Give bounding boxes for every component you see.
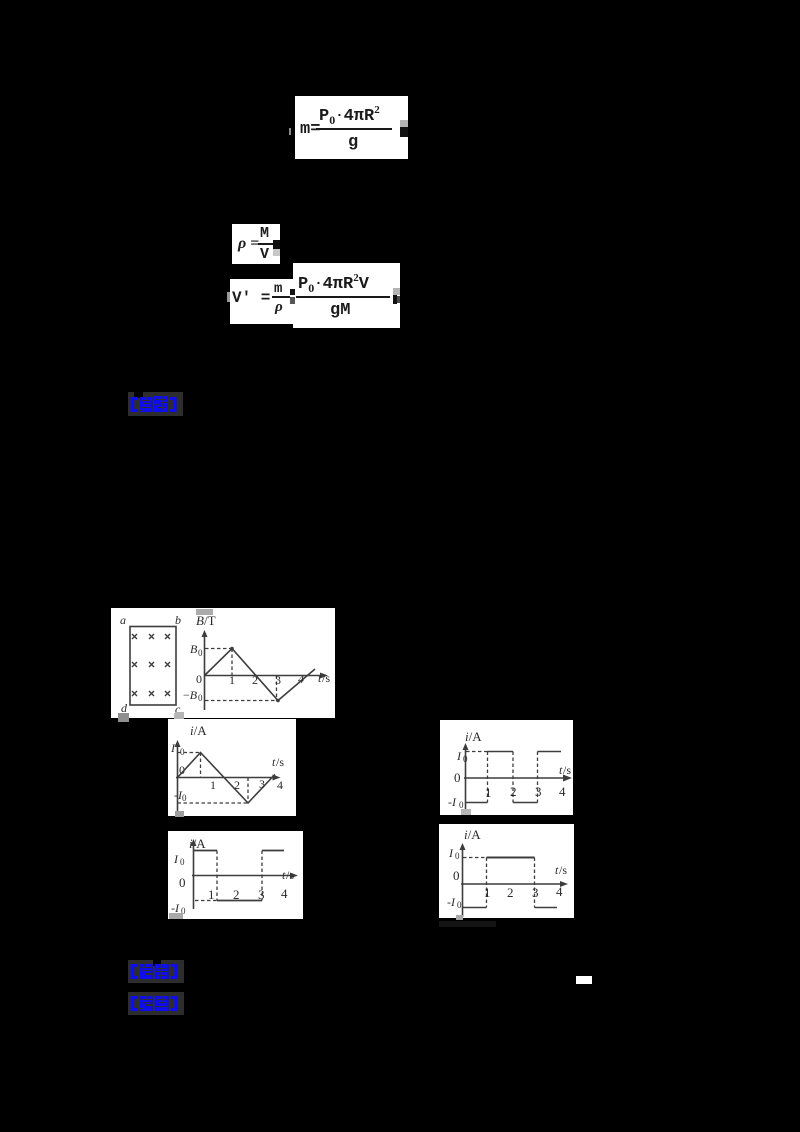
label c bbox=[175, 702, 181, 716]
denominator gM bbox=[330, 302, 350, 319]
label i/A bbox=[464, 827, 481, 842]
dashed vertical at t=1 bbox=[216, 851, 218, 901]
svg-text:i/A: i/A bbox=[465, 729, 482, 744]
numerator M bbox=[260, 226, 269, 241]
svg-text:1: 1 bbox=[208, 887, 215, 902]
dashed vertical at t=3 bbox=[534, 858, 536, 908]
dashed vertical at t=1 bbox=[231, 649, 233, 676]
y-axis bbox=[204, 635, 206, 710]
white dash mark bbox=[576, 976, 592, 984]
svg-text:B: B bbox=[190, 642, 198, 656]
fraction bar bbox=[316, 128, 392, 130]
dashed vertical at trough bbox=[247, 778, 249, 804]
square wave: high 0-1 bbox=[194, 850, 218, 852]
right bracket bbox=[171, 996, 178, 1011]
y-axis bbox=[462, 846, 464, 917]
svg-text:4: 4 bbox=[281, 886, 288, 901]
svg-text:b: b bbox=[175, 613, 181, 627]
dark band under option D box bbox=[439, 921, 496, 927]
dashed -I0 horizontal bbox=[178, 802, 249, 804]
square wave: high 1-3 bbox=[487, 857, 535, 859]
blue label 2: kaodian tag bbox=[128, 960, 184, 983]
tick labels 1 2 3 4 bbox=[229, 673, 235, 687]
option B graph box: square wave period 2 bbox=[440, 720, 573, 815]
svg-text:2: 2 bbox=[507, 885, 514, 900]
svg-text:0: 0 bbox=[196, 672, 202, 686]
svg-text:2: 2 bbox=[252, 673, 258, 687]
left bracket bbox=[131, 964, 138, 979]
square wave: low 2-3 bbox=[513, 802, 538, 804]
svg-text:0: 0 bbox=[182, 793, 187, 803]
gray handle bottom-left of diagram box bbox=[118, 713, 129, 722]
gray handle bottom-left of option A box bbox=[175, 811, 184, 817]
label rho= bbox=[238, 236, 259, 252]
fraction bar bbox=[258, 243, 274, 245]
svg-text:3: 3 bbox=[259, 777, 265, 791]
dark equals mark between box3a and box3b bbox=[290, 289, 295, 295]
svg-text:2: 2 bbox=[510, 784, 517, 799]
svg-text:0: 0 bbox=[455, 851, 460, 861]
dashed B0 horizontal bbox=[205, 648, 232, 650]
svg-text:/s: /s bbox=[286, 868, 294, 882]
gray handle top bbox=[196, 609, 213, 615]
cursor mark bbox=[273, 240, 280, 249]
label I0 overlapping axis bbox=[170, 741, 185, 757]
label B/T bbox=[196, 613, 216, 628]
cursor mark right edge bbox=[400, 120, 408, 127]
square wave: low 1-3 bbox=[217, 900, 262, 902]
gray handle bottom-c of diagram box bbox=[174, 713, 184, 721]
svg-text:0: 0 bbox=[454, 770, 461, 785]
label -I0 bbox=[171, 901, 186, 916]
glyph 2 bbox=[154, 396, 168, 412]
dashed vertical at t=1 bbox=[486, 858, 488, 908]
label 0 bbox=[453, 868, 460, 883]
label a bbox=[120, 613, 126, 627]
numerator bbox=[298, 273, 369, 294]
square wave: high 1-2 bbox=[488, 751, 514, 753]
label i/A bbox=[465, 729, 482, 744]
gray handle bottom-left of option D box bbox=[456, 915, 463, 920]
label -I0 bbox=[174, 788, 187, 803]
label I0 bbox=[448, 846, 460, 861]
tick labels bbox=[484, 885, 491, 900]
formula image 1: m = P0·4πR²/g bbox=[289, 128, 291, 135]
triangle waveform bbox=[178, 753, 276, 804]
svg-text:I: I bbox=[170, 741, 176, 755]
square wave: low 3-4 bbox=[535, 907, 558, 909]
svg-text:1: 1 bbox=[210, 778, 216, 792]
fraction bar bbox=[272, 296, 290, 298]
svg-text:i/A: i/A bbox=[464, 827, 481, 842]
label -I0 bbox=[447, 895, 462, 910]
formula image 2: rho = M/V bbox=[232, 224, 280, 264]
denominator V bbox=[260, 247, 269, 262]
glyph 2 bbox=[155, 964, 169, 979]
glyph 2 bbox=[155, 996, 169, 1011]
label d bbox=[121, 701, 128, 715]
dashed I0 horizontal bbox=[178, 752, 201, 754]
left bracket bbox=[131, 996, 138, 1011]
x-axis bbox=[192, 875, 295, 877]
svg-text:/s: /s bbox=[563, 763, 571, 777]
label t/s bbox=[272, 755, 284, 769]
tick labels bbox=[485, 785, 492, 800]
triangle waveform bbox=[205, 649, 316, 701]
svg-text:2: 2 bbox=[233, 887, 240, 902]
svg-text:/s: /s bbox=[559, 863, 567, 877]
gray handle bottom-left of option B box bbox=[461, 809, 471, 815]
svg-text:2: 2 bbox=[234, 778, 240, 792]
label i/A bbox=[190, 723, 207, 738]
option A graph box: triangle i/A wave bbox=[168, 719, 296, 816]
label i/A bbox=[189, 836, 206, 851]
left bracket bbox=[131, 397, 138, 412]
label m= bbox=[300, 121, 320, 138]
dashed vertical at t=3 bbox=[537, 752, 539, 803]
svg-text:3: 3 bbox=[535, 784, 542, 799]
glyph 1 bbox=[140, 964, 153, 979]
option D graph box: square wave low 0-1, high 1-3, low 3-4 bbox=[439, 824, 574, 918]
label 0 bbox=[196, 672, 202, 686]
svg-text:I: I bbox=[448, 846, 454, 860]
dashed -I0 horizontal bbox=[195, 900, 217, 902]
svg-text:0: 0 bbox=[198, 693, 203, 703]
svg-text:I: I bbox=[456, 749, 462, 763]
label t/s bbox=[555, 863, 567, 877]
svg-text:-I: -I bbox=[447, 895, 456, 909]
label -I0 bbox=[448, 795, 464, 810]
dot at trough bbox=[276, 699, 280, 703]
svg-text:3: 3 bbox=[275, 673, 281, 687]
label b bbox=[175, 613, 181, 627]
svg-text:/s: /s bbox=[276, 755, 284, 769]
diagram box: loop abcd in field + B/T graph bbox=[111, 608, 335, 718]
dashed vertical at t=1 bbox=[487, 752, 489, 803]
label B0 bbox=[190, 642, 203, 658]
dashed I0 horizontal bbox=[466, 751, 488, 753]
cursor mark right edge bbox=[393, 288, 400, 295]
dashed vertical at t=3 bbox=[276, 676, 278, 702]
dashed vertical at peak bbox=[200, 753, 202, 778]
svg-text:/s: /s bbox=[322, 671, 330, 685]
right bracket bbox=[171, 964, 178, 979]
svg-text:4: 4 bbox=[298, 672, 304, 686]
gray handle bottom-left of option C box bbox=[169, 913, 183, 919]
label 0 bbox=[179, 875, 186, 890]
fraction bar bbox=[296, 296, 390, 298]
label I0 bbox=[456, 749, 468, 764]
x-axis bbox=[205, 675, 326, 677]
svg-text:I: I bbox=[173, 852, 179, 866]
svg-text:0: 0 bbox=[180, 857, 185, 867]
svg-text:i/A: i/A bbox=[190, 723, 207, 738]
svg-text:1: 1 bbox=[484, 885, 491, 900]
field x marks row2 bbox=[132, 662, 170, 667]
gray handle above option A box bbox=[175, 712, 184, 719]
denominator g bbox=[348, 134, 358, 151]
field x marks row1 bbox=[132, 634, 170, 639]
svg-text:0: 0 bbox=[453, 868, 460, 883]
x-axis bbox=[176, 777, 276, 779]
loop rectangle bbox=[130, 627, 176, 706]
dashed -B0 horizontal bbox=[205, 700, 278, 702]
svg-text:0: 0 bbox=[457, 900, 462, 910]
svg-text:4: 4 bbox=[277, 778, 283, 792]
label I0 bbox=[173, 852, 185, 867]
label t/s bbox=[282, 868, 294, 882]
tick labels bbox=[210, 778, 216, 792]
formula image 3 right: P0·4πR²V / gM bbox=[293, 263, 400, 328]
dot at peak bbox=[230, 647, 234, 651]
svg-text:1: 1 bbox=[229, 673, 235, 687]
svg-text:4: 4 bbox=[556, 884, 563, 899]
svg-text:0: 0 bbox=[198, 648, 203, 658]
svg-text:a: a bbox=[120, 613, 126, 627]
x-axis bbox=[461, 883, 564, 885]
square wave: low 0-1 bbox=[466, 802, 488, 804]
label 0 bbox=[454, 770, 461, 785]
square wave: low 0-1 bbox=[463, 907, 487, 909]
glyph 1 bbox=[140, 397, 153, 412]
dashed vertical at t=2 bbox=[512, 752, 514, 803]
svg-text:4: 4 bbox=[559, 784, 566, 799]
svg-text:0: 0 bbox=[179, 875, 186, 890]
y-axis bbox=[193, 842, 195, 909]
svg-text:0: 0 bbox=[463, 754, 468, 764]
field x marks row3 bbox=[132, 691, 170, 696]
numerator P0·4πR² bbox=[319, 105, 380, 126]
right bracket bbox=[170, 397, 177, 412]
y-axis bbox=[465, 748, 467, 810]
dashed vertical at t=3 bbox=[261, 851, 263, 901]
dashed I0 horizontal bbox=[463, 857, 487, 859]
x-axis bbox=[464, 777, 568, 779]
svg-text:B/T: B/T bbox=[196, 613, 216, 628]
gray dash left of box3a bbox=[227, 292, 230, 302]
svg-text:-I: -I bbox=[448, 795, 457, 809]
square wave: high 3-4 bbox=[262, 850, 284, 852]
option C graph box: square wave high 0-1, low 1-3, high 3-4 bbox=[168, 831, 303, 919]
blue label 1: dianping tag bbox=[128, 392, 183, 416]
svg-text:−B: −B bbox=[183, 688, 198, 702]
svg-text:3: 3 bbox=[532, 885, 539, 900]
glyph 1 bbox=[140, 996, 153, 1011]
blue label 3: zhuanti tag bbox=[128, 992, 184, 1015]
numerator m bbox=[274, 282, 282, 296]
svg-text:1: 1 bbox=[485, 785, 492, 800]
label t/s bbox=[318, 671, 330, 685]
label -B0 bbox=[183, 688, 203, 703]
formula image 3 left: V' = m/rho bbox=[230, 279, 293, 324]
label t/s bbox=[559, 763, 571, 777]
square wave: high 3-4 bbox=[538, 751, 562, 753]
svg-text:3: 3 bbox=[258, 887, 265, 902]
y-axis bbox=[177, 745, 179, 813]
label 0 bbox=[179, 763, 185, 777]
tick labels bbox=[208, 887, 215, 902]
denominator rho bbox=[275, 300, 283, 315]
